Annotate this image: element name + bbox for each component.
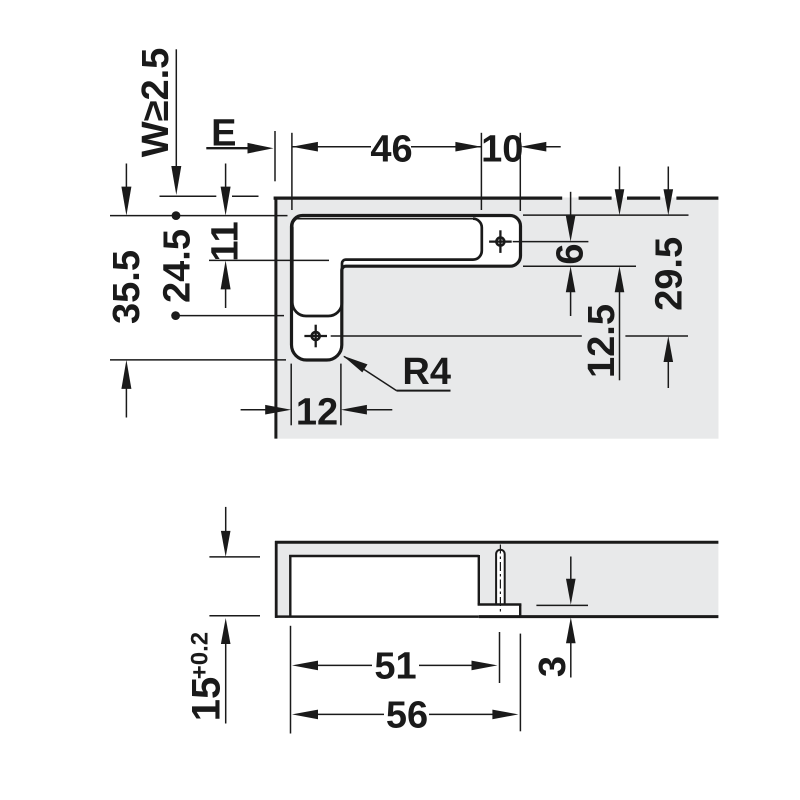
W arrow line — [175, 49, 177, 172]
hole2 center line — [331, 335, 582, 337]
11 top arrow tail — [225, 164, 227, 192]
section top edge — [275, 541, 718, 544]
svg-text:29.5: 29.5 — [649, 237, 691, 311]
svg-text:56: 56 — [386, 695, 428, 737]
15 arrows — [221, 531, 231, 557]
11 top/bottom — [221, 187, 231, 216]
svg-text:51: 51 — [374, 646, 416, 688]
E arrow line — [206, 147, 250, 149]
15 bottom arrow tail — [225, 643, 227, 724]
svg-text:12: 12 — [296, 391, 338, 433]
thin dimension lines — [110, 49, 689, 425]
3 bottom arrow tail — [570, 642, 572, 677]
35.5 top/bottom — [121, 187, 131, 216]
svg-text:3: 3 — [532, 656, 574, 677]
bottom view dimension lines — [209, 507, 588, 734]
svg-text:R4: R4 — [402, 351, 451, 393]
channel left/right — [495, 554, 497, 605]
channel dash-dot centerline — [499, 545, 501, 612]
channel white — [496, 552, 505, 605]
46/10 shared ext — [480, 133, 482, 210]
11 bottom arrow tail — [225, 285, 227, 308]
3 arrows — [566, 579, 576, 605]
15 ext bottom — [209, 615, 260, 617]
notch bottom line — [478, 603, 522, 605]
6 arrows — [566, 216, 576, 242]
10 right outside arrow tail — [544, 146, 561, 148]
svg-text:11: 11 — [205, 221, 247, 261]
slot-bottom extension line (left) — [110, 359, 286, 361]
10 right ext — [519, 133, 521, 211]
panel (top view) gray body — [275, 198, 719, 439]
12.5 arrows — [619, 167, 621, 191]
svg-text:46: 46 — [370, 129, 412, 171]
slot inner groove contour — [296, 218, 473, 220]
46 dim line — [292, 146, 371, 148]
notch right line — [519, 605, 521, 617]
35.5 top arrow tail — [125, 164, 127, 192]
section gray body — [276, 542, 718, 617]
step right line — [478, 555, 480, 605]
6 arrows tails — [570, 192, 572, 217]
panel-left extension above — [274, 131, 276, 181]
panel top edge — [274, 197, 563, 200]
3 ext line — [536, 604, 588, 606]
bottom view arrowheads — [221, 531, 576, 719]
12 ext lines — [290, 364, 292, 426]
svg-text:35.5: 35.5 — [106, 250, 148, 324]
channel dome arc — [496, 550, 505, 554]
svg-text:6: 6 — [550, 243, 592, 264]
12 dim arrows tails — [241, 409, 266, 411]
29.5 arrows — [664, 189, 674, 215]
15 ext top — [209, 556, 260, 558]
pocket white — [290, 556, 479, 616]
11 extension line — [209, 259, 329, 261]
R4 leader — [344, 356, 397, 390]
56 right ext — [519, 634, 521, 732]
right: slot-bottom(top arm) ext — [523, 265, 636, 267]
section bottom edge — [275, 615, 479, 618]
W arrow — [171, 166, 181, 195]
46 left/right — [292, 142, 318, 152]
15 top arrow tail — [225, 507, 227, 532]
E arrow — [248, 143, 274, 154]
35.5 bottom arrow tail — [125, 384, 127, 418]
svg-text:12.5: 12.5 — [581, 304, 623, 378]
51 dim line — [318, 664, 372, 666]
51 arrows — [292, 661, 318, 671]
section outline — [275, 541, 718, 618]
51/56 left ext — [290, 626, 292, 734]
svg-text:24.5: 24.5 — [157, 229, 199, 303]
pocket left line — [289, 555, 291, 616]
slot outer contour (L pocket) — [292, 216, 521, 361]
10 outside right — [520, 142, 546, 152]
3 top arrow tail — [570, 557, 572, 580]
screw hole top (crosshair) — [489, 230, 512, 253]
section left edge — [275, 541, 278, 618]
channel dome — [496, 550, 505, 556]
R4 underline — [397, 390, 451, 392]
panel-top short extension — [160, 195, 217, 197]
svg-text:W≥2.5: W≥2.5 — [135, 48, 177, 158]
arrowheads, top view — [121, 142, 673, 415]
56 arrows — [292, 710, 318, 720]
51 right ext — [499, 632, 501, 683]
slot-top extension line (left) — [110, 215, 288, 217]
panel left edge — [274, 197, 277, 439]
24.5 reference line — [176, 315, 284, 317]
12.5 arrows — [615, 189, 625, 215]
24.5 dots — [172, 211, 181, 220]
pocket top line — [289, 555, 479, 557]
svg-text:+0.2: +0.2 — [187, 632, 214, 679]
svg-text:15: 15 — [184, 677, 228, 722]
slot inner groove deep edges — [292, 219, 482, 316]
12 arrows — [265, 405, 291, 415]
svg-text:E: E — [211, 113, 236, 155]
R4 leader arrowhead — [343, 356, 368, 373]
hole1 center line — [513, 241, 589, 243]
46 left ext — [291, 133, 293, 210]
56 dim line — [318, 713, 384, 715]
screw hole bottom (crosshair) — [304, 325, 327, 348]
notch white — [479, 605, 520, 617]
svg-text:10: 10 — [481, 129, 523, 171]
right: slot-top ext — [523, 214, 689, 216]
29.5 arrows — [667, 167, 669, 191]
